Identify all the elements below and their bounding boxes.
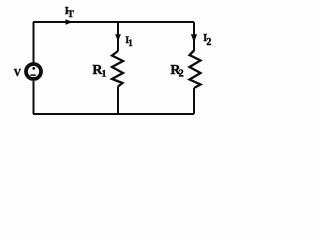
wire left lower bbox=[33, 81, 35, 114]
svg-text:1: 1 bbox=[102, 69, 107, 79]
svg-text:2: 2 bbox=[206, 37, 211, 48]
svg-text:1: 1 bbox=[128, 38, 133, 48]
wire left upper bbox=[33, 22, 35, 63]
arrow I2 bbox=[191, 34, 197, 42]
arrow I1 bbox=[115, 34, 121, 41]
plus sign inside source bbox=[32, 67, 35, 70]
wire middle branch lower bbox=[117, 87, 119, 115]
wire top bbox=[33, 21, 194, 23]
svg-text:2: 2 bbox=[179, 68, 184, 79]
svg-text:T: T bbox=[68, 10, 75, 20]
wire bottom bbox=[33, 113, 194, 115]
resistor R1 bbox=[112, 51, 123, 87]
voltage source V bbox=[26, 64, 41, 79]
svg-text:V: V bbox=[14, 68, 22, 79]
wire middle branch upper bbox=[117, 22, 119, 51]
minus sign inside source bbox=[30, 74, 35, 76]
resistor R2 bbox=[190, 50, 201, 88]
wire right branch upper bbox=[193, 22, 195, 50]
wire right branch lower bbox=[193, 88, 195, 114]
arrow IT bbox=[66, 19, 74, 24]
